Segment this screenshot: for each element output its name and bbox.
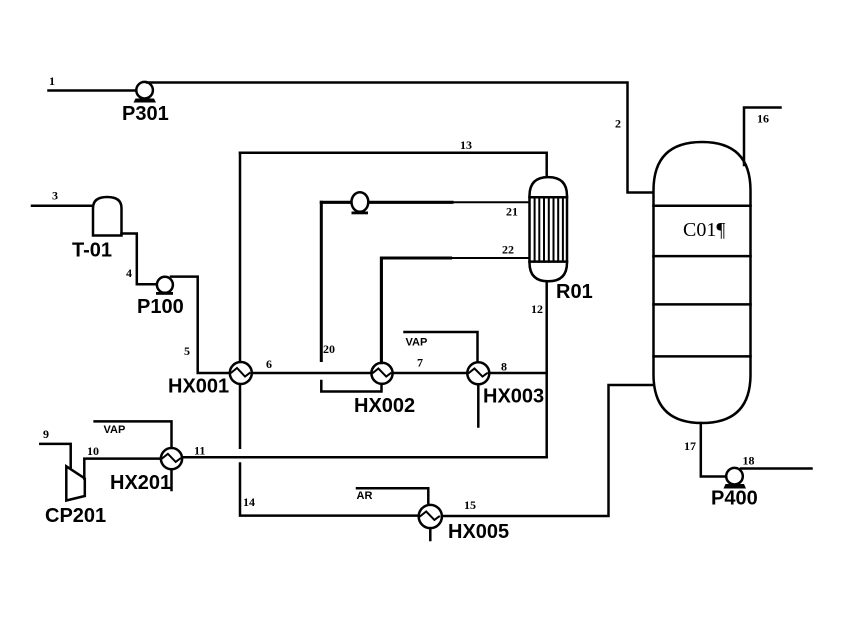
svg-text:P100: P100 (137, 296, 184, 318)
wire HX005 bottom stub (429, 528, 432, 540)
wire HX002 cold inlet U (321, 381, 381, 392)
svg-text:T-01: T-01 (72, 240, 112, 262)
svg-text:VAP: VAP (406, 337, 428, 349)
wire stream 15 (442, 385, 654, 516)
svg-text:HX005: HX005 (448, 521, 509, 543)
pump P301 (134, 82, 157, 103)
svg-text:22: 22 (502, 243, 514, 257)
svg-text:21: 21 (506, 205, 518, 219)
heat exchanger HX003 (467, 362, 489, 384)
svg-text:3: 3 (52, 189, 58, 203)
svg-text:CP201: CP201 (45, 505, 106, 527)
svg-text:15: 15 (464, 498, 476, 512)
heat exchanger HX002 (371, 363, 392, 384)
svg-text:AR: AR (357, 490, 373, 502)
svg-text:16: 16 (757, 112, 769, 126)
wire stream 6 (252, 372, 372, 375)
svg-text:13: 13 (460, 138, 472, 152)
wire stream 1 (49, 89, 138, 92)
wire stream 12 (545, 281, 548, 456)
wire stream 8 (489, 372, 546, 375)
svg-text:10: 10 (87, 444, 99, 458)
wire stream 10 (84, 459, 161, 479)
svg-text:HX001: HX001 (168, 376, 229, 398)
wire stream 14 vertical lower (240, 464, 419, 516)
svg-text:9: 9 (43, 427, 49, 441)
svg-text:12: 12 (531, 302, 543, 316)
wire stream 2 top (147, 83, 654, 193)
compressor CP201 (66, 466, 85, 500)
svg-text:P400: P400 (711, 488, 758, 510)
heat exchanger HX005 (419, 505, 442, 528)
wire stream 7 (393, 372, 468, 375)
wire stream 3 (32, 205, 93, 208)
wire stream 13 (240, 153, 547, 177)
wire stream 4 (122, 234, 157, 285)
svg-text:P301: P301 (122, 103, 169, 125)
heat exchanger HX201 (161, 448, 182, 469)
svg-text:11: 11 (194, 444, 205, 458)
wire AR line to HX005 (357, 488, 428, 505)
svg-text:18: 18 (743, 454, 755, 468)
wire stream 9 (40, 444, 70, 468)
svg-text:14: 14 (243, 495, 255, 509)
wire HX201 bottom stub (170, 469, 173, 490)
wire stream 16 (744, 108, 781, 166)
wire VAP line to HX003 (405, 332, 478, 362)
wire stream 20 vertical (320, 202, 323, 360)
wire stream 18 (741, 467, 812, 470)
wire stream 22 (451, 257, 530, 259)
wire stream 21 (321, 201, 452, 204)
wire stream 17 (701, 423, 726, 477)
wire stream 11 (182, 456, 547, 459)
svg-text:5: 5 (184, 344, 190, 358)
svg-text:8: 8 (501, 360, 507, 374)
svg-text:1: 1 (49, 74, 55, 88)
svg-text:HX201: HX201 (110, 472, 171, 494)
pump P400 (724, 468, 747, 489)
svg-text:VAP: VAP (104, 424, 126, 436)
svg-text:2: 2 (615, 117, 621, 131)
svg-text:HX002: HX002 (354, 395, 415, 417)
svg-text:20: 20 (323, 342, 335, 356)
svg-text:6: 6 (266, 357, 272, 371)
svg-text:R01: R01 (556, 281, 593, 303)
pump recycle on 21 (352, 192, 369, 214)
heat exchanger HX001 (230, 362, 252, 384)
wire HX003 bottom stub (477, 384, 480, 426)
tank T-01 (93, 197, 122, 236)
svg-text:4: 4 (126, 266, 132, 280)
pump P100 (156, 277, 173, 295)
wire stream 14 vertical mid (239, 384, 242, 448)
svg-text:C01¶: C01¶ (683, 219, 725, 241)
column C01 (654, 142, 751, 423)
svg-text:17: 17 (684, 439, 696, 453)
wire stream 14 vertical upper (239, 153, 242, 362)
svg-text:HX003: HX003 (483, 386, 544, 408)
wire VAP line to HX201 (95, 421, 172, 447)
wire stream 5 (171, 277, 230, 373)
svg-text:7: 7 (417, 356, 423, 370)
reactor R01 (530, 177, 568, 281)
